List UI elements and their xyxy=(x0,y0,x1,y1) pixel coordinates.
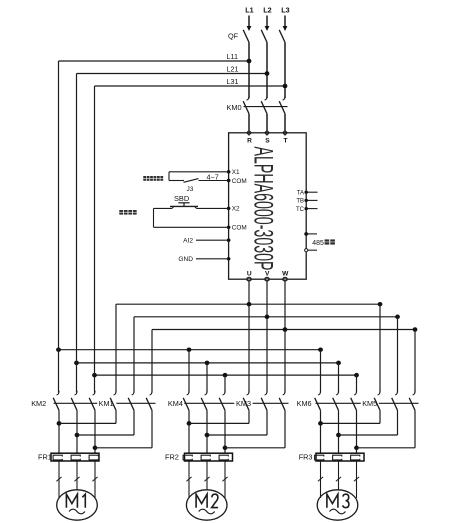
svg-text:R: R xyxy=(247,138,252,145)
svg-text:L1: L1 xyxy=(245,6,253,15)
svg-text:TA: TA xyxy=(297,190,304,196)
svg-text:4−7: 4−7 xyxy=(207,173,219,182)
svg-text:COM: COM xyxy=(232,178,247,185)
svg-text:L2: L2 xyxy=(263,6,271,15)
svg-text:TC: TC xyxy=(296,207,305,213)
svg-text:L21: L21 xyxy=(227,64,239,73)
svg-text:KM4: KM4 xyxy=(168,399,183,408)
svg-text:KM0: KM0 xyxy=(227,103,242,112)
svg-text:SBD: SBD xyxy=(174,194,189,203)
svg-text:KM2: KM2 xyxy=(31,399,46,408)
svg-text:AI2: AI2 xyxy=(183,238,193,245)
svg-text:KM1: KM1 xyxy=(99,399,114,408)
svg-text:KM6: KM6 xyxy=(297,399,312,408)
svg-text:QF: QF xyxy=(228,32,239,41)
svg-text:COM: COM xyxy=(232,225,247,232)
svg-text:X1: X1 xyxy=(232,169,240,176)
svg-text:485: 485 xyxy=(312,240,324,247)
svg-text:KM3: KM3 xyxy=(236,399,251,408)
svg-text:FR3: FR3 xyxy=(299,453,313,462)
svg-text:V: V xyxy=(265,271,270,278)
svg-text:ALPHA6000-3030P: ALPHA6000-3030P xyxy=(249,147,279,271)
svg-text:GND: GND xyxy=(178,256,193,263)
svg-text:U: U xyxy=(247,271,252,278)
svg-text:L11: L11 xyxy=(227,52,238,61)
svg-text:X2: X2 xyxy=(232,206,240,213)
svg-text:FR2: FR2 xyxy=(165,453,179,462)
svg-text:FR1: FR1 xyxy=(38,453,52,462)
svg-text:S: S xyxy=(265,138,270,145)
svg-text:TB: TB xyxy=(296,199,304,205)
svg-text:L31: L31 xyxy=(227,77,239,86)
svg-text:W: W xyxy=(282,271,289,278)
svg-text:L3: L3 xyxy=(281,6,289,15)
svg-text:KM5: KM5 xyxy=(362,399,377,408)
svg-text:J3: J3 xyxy=(187,186,194,193)
svg-text:T: T xyxy=(283,138,287,145)
